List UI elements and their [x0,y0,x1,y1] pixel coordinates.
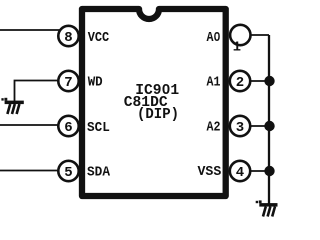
wire pin1 to bus [251,34,270,36]
svg-text:8: 8 [64,30,72,46]
wire bus vertical [268,35,270,204]
junction node pin2 [264,76,274,86]
svg-text:VCC: VCC [88,30,110,46]
junction node pin3 [264,121,274,131]
pin 2 circle [230,71,250,91]
svg-text:A0: A0 [207,30,221,46]
pin 4 circle [230,161,250,181]
svg-text:WD: WD [88,75,103,91]
svg-text:A1: A1 [207,75,221,91]
pin 8 circle [58,26,78,46]
wire pin2 to bus [250,80,269,82]
ground GND right [256,200,278,216]
svg-text:5: 5 [64,165,72,181]
svg-text:SDA: SDA [87,165,111,181]
svg-text:1: 1 [233,40,241,56]
pin 1 circle [230,25,250,45]
junction node pin4 [264,166,274,176]
svg-text:7: 7 [64,75,72,91]
pin 6 circle [58,116,78,136]
ground GND left [1,98,23,114]
IC U1 IC901 C81DC DIP-8 body outline with pin-1 notch [82,9,226,196]
svg-text:4: 4 [236,165,244,181]
svg-text:(DIP): (DIP) [137,107,179,123]
wire pin6 to left edge [0,124,59,126]
wire pin4 to bus [250,170,269,172]
wire pin8 to left edge [0,29,60,31]
pin 3 circle [230,116,250,136]
svg-text:A2: A2 [207,120,221,136]
pin 5 circle [58,161,78,181]
svg-text:2: 2 [236,75,244,91]
wire pin3 to bus [250,125,269,127]
svg-text:SCL: SCL [87,120,110,136]
svg-text:6: 6 [64,120,72,136]
pin 7 circle [58,71,78,91]
wire pin7 to ground [15,81,58,102]
wire pin5 to left edge [0,170,59,172]
svg-text:3: 3 [236,120,244,136]
svg-text:VSS: VSS [198,164,222,180]
